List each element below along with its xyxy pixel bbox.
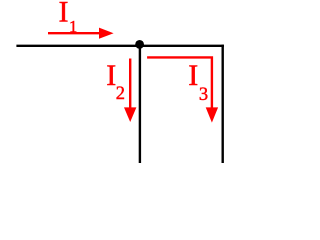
wire: right vertical branch: [221, 45, 223, 163]
wire: horizontal top wire: [16, 45, 224, 47]
svg-text:I: I: [106, 59, 116, 92]
current arrow I2: [124, 59, 136, 123]
current arrow I1: [48, 28, 114, 39]
current arrow I3: [147, 57, 218, 122]
svg-text:1: 1: [69, 17, 77, 36]
svg-text:2: 2: [116, 84, 125, 104]
svg-text:3: 3: [199, 85, 208, 105]
svg-text:I: I: [188, 59, 198, 92]
wire: left vertical branch: [139, 45, 141, 163]
svg-text:I: I: [59, 0, 69, 29]
node junction dot: [135, 40, 144, 49]
